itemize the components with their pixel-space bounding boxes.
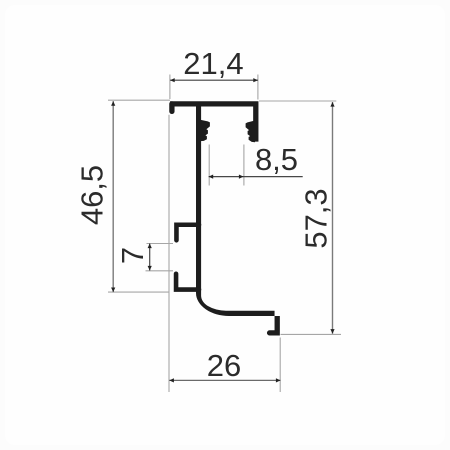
arrow 21,4 right <box>253 78 258 82</box>
arrow 21,4 left <box>170 78 175 82</box>
arrow 46,5 down <box>111 288 115 293</box>
dim line 21,4 <box>170 79 258 81</box>
svg-text:7: 7 <box>115 247 150 264</box>
extension lines (light gray) <box>108 75 341 393</box>
ext 7 top <box>147 243 174 245</box>
arrow 57,3 down <box>330 329 334 334</box>
dim line 46,5 <box>112 101 114 292</box>
serrated tooth on right wall (right screw channel barb) <box>246 121 255 143</box>
arrow 26 right <box>276 378 281 382</box>
ext 8,5 left <box>208 145 210 186</box>
lower left hook <box>176 274 199 290</box>
top bar with left lip and right wall <box>169 104 174 112</box>
arrowheads <box>111 78 335 382</box>
ext 21,4 left <box>169 75 171 100</box>
profile cross-section outline <box>170 104 280 336</box>
stem, bottom elbow, foot and right end hook (filled outline) <box>196 106 280 336</box>
ext 21,4 right <box>257 75 259 100</box>
arrow 8,5 left <box>209 175 214 179</box>
dim line 7 <box>149 244 151 271</box>
ext 57,3 top <box>259 100 336 102</box>
ext 46,5 bottom <box>108 291 169 293</box>
ext 26 left (long, from top lip to below) <box>168 115 170 392</box>
arrow 57,3 up <box>330 102 334 107</box>
arrow 7 up <box>148 244 152 249</box>
svg-text:26: 26 <box>207 348 241 383</box>
serrated tooth on stem (left screw channel barb) <box>199 120 210 142</box>
svg-text:46,5: 46,5 <box>75 165 110 225</box>
arrow 26 left <box>169 378 174 382</box>
dim line 8,5 <box>209 176 303 178</box>
ext 7 bottom <box>146 270 174 272</box>
svg-text:57,3: 57,3 <box>299 188 334 248</box>
svg-text:21,4: 21,4 <box>183 46 243 81</box>
ext 46,5 top <box>108 99 170 101</box>
dim line 26 <box>169 379 280 381</box>
ext 57,3 bottom <box>281 333 342 335</box>
arrow 8,5 right <box>239 175 244 179</box>
upper left hook <box>176 225 199 241</box>
dim line 57,3 <box>332 102 334 334</box>
ext 26 right <box>279 338 281 393</box>
ext 8,5 right <box>243 145 245 186</box>
arrow 46,5 up <box>111 101 115 106</box>
arrow 7 down <box>148 266 152 271</box>
dimension lines (darker) <box>113 80 332 380</box>
svg-text:8,5: 8,5 <box>255 142 298 177</box>
